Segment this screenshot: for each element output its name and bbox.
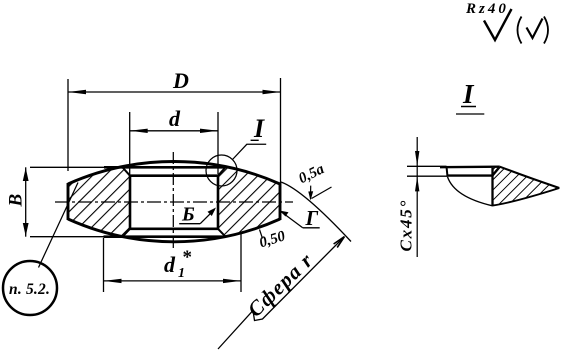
callout circle I [206, 155, 237, 186]
Sphere r leader [218, 239, 343, 350]
svg-text:d: d [164, 252, 176, 277]
detail leaf top curve [500, 167, 560, 188]
detail sphere sweep curve [448, 177, 493, 206]
svg-text:D: D [172, 68, 189, 93]
chamfer bottom-right [218, 229, 226, 237]
balloon circle п.5.2 [3, 261, 57, 315]
dimension B line [25, 167, 27, 236]
sphere extension arc [281, 182, 351, 242]
detail top face [440, 165, 500, 168]
0,50 leader tick [260, 230, 263, 239]
detail hatched leaf [492, 167, 559, 206]
detail leaf bottom curve [492, 188, 559, 206]
chamfer top-right [218, 167, 226, 175]
svg-text:0,50: 0,50 [257, 228, 287, 251]
B arrow bottom [23, 223, 29, 236]
C arrow up [415, 176, 419, 191]
roughness check symbol [484, 9, 512, 40]
D arrow right [263, 90, 281, 94]
svg-text:I: I [253, 114, 265, 143]
chamfer bottom-left [123, 229, 131, 237]
svg-text:п. 5.2.: п. 5.2. [9, 281, 50, 298]
small check [527, 19, 543, 39]
hole bottom edge [129, 228, 219, 231]
Г leader [282, 212, 303, 228]
detail ref line top [407, 165, 447, 167]
hole right wall [217, 175, 220, 230]
bottom flat face line [30, 236, 104, 238]
callout I leader [233, 144, 267, 159]
bottom spherical arc [68, 219, 280, 242]
C arrow down [415, 151, 419, 166]
svg-text:*: * [183, 247, 193, 268]
parenthesis left [518, 17, 522, 44]
dimension D line [68, 91, 281, 93]
svg-text:d: d [169, 106, 181, 131]
Б leader [200, 210, 214, 224]
parenthesis right [544, 17, 548, 44]
0,5a leader [310, 186, 312, 199]
d arrow right [200, 129, 218, 133]
svg-text:В: В [6, 194, 27, 208]
top spherical arc [68, 162, 280, 184]
vertical centerline [172, 152, 174, 249]
dimension d extension lines [129, 112, 131, 183]
svg-text:Сфера r: Сфера r [243, 248, 318, 322]
d1 arrow left [104, 279, 122, 283]
D arrow left [68, 90, 86, 94]
hatched section body [68, 162, 280, 242]
left rim edge [67, 183, 70, 220]
svg-text:0,5a: 0,5a [296, 161, 327, 187]
svg-text:Rz40: Rz40 [465, 1, 509, 17]
detail chamfer [492, 167, 499, 176]
svg-text:I: I [462, 79, 475, 109]
dimension d1 line [104, 280, 242, 282]
dimension d line [130, 130, 218, 132]
dimension D extension lines [67, 79, 69, 171]
detail ref line bottom [407, 175, 448, 177]
svg-text:1: 1 [178, 266, 185, 281]
balloon leader [39, 183, 79, 268]
detail: C dim vertical line [416, 137, 418, 257]
detail cut edge [491, 168, 493, 206]
detail step face [447, 174, 493, 176]
hole left wall [129, 175, 132, 230]
top flat face line [30, 166, 104, 168]
svg-text:Г: Г [305, 206, 319, 230]
detail left cap [447, 167, 448, 177]
B arrow top [23, 168, 29, 181]
svg-text:Б: Б [181, 204, 195, 226]
svg-text:Сx45°: Сx45° [397, 199, 416, 252]
hole top edge [129, 174, 219, 177]
chamfer top-left [123, 167, 131, 175]
dimension d1 extension lines [103, 238, 105, 292]
d1 arrow right [223, 279, 241, 283]
right rim edge [279, 183, 282, 220]
d arrow left [130, 129, 148, 133]
horizontal centerline [55, 201, 293, 203]
